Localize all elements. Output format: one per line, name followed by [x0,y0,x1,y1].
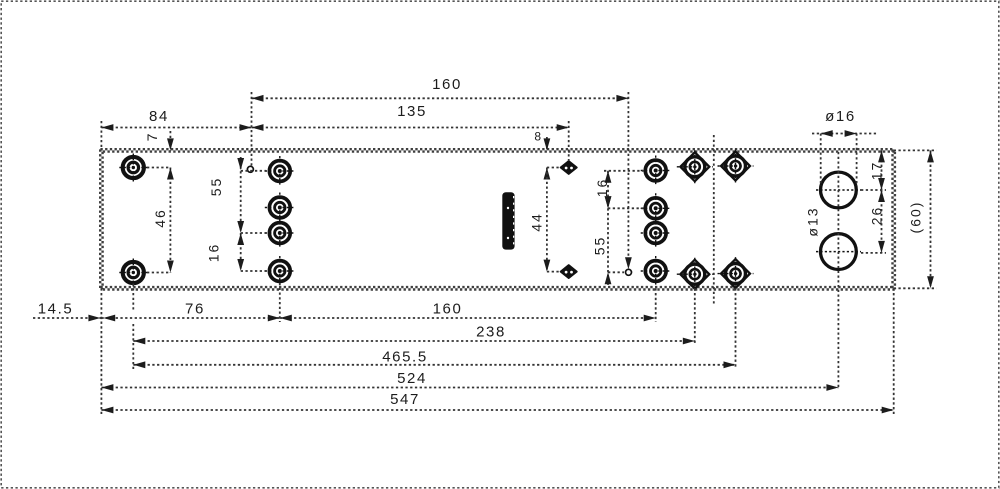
svg-text:465.5: 465.5 [382,349,428,366]
svg-text:(60): (60) [908,201,924,234]
dim 238 line [133,338,695,345]
dim 55 right line [605,196,612,285]
panel left edge [100,149,102,289]
svg-text:160: 160 [432,76,462,93]
stub circle2 center [861,252,886,254]
dim 44 line [544,168,551,272]
dim 7 label [144,132,160,142]
stub circle1 center [861,189,886,191]
ext col4 bottom [694,288,696,345]
dim 46 line [167,168,174,273]
stub col2 row4 [241,270,266,272]
connector hole col2 row3 [265,218,295,248]
dim 60 label [908,201,924,234]
svg-text:76: 76 [185,301,205,318]
big circle top crosshair [816,189,861,191]
dim 84 line [101,124,251,131]
dim 44 label [529,212,545,232]
big circle top [821,172,857,208]
ext hole1 center bottom [132,284,134,370]
ext line small hole col2 [251,92,253,166]
dim o16 label [825,108,856,125]
ext col2 bottom [279,283,281,322]
stub hole row y272 [147,272,170,274]
svg-text:547: 547 [390,391,420,408]
dim 76 line [101,315,279,322]
stub col3 row1 [604,170,644,172]
stub 60 bottom [894,287,937,289]
big circle bottom [821,234,857,270]
knurled screw hole top-left [119,154,147,182]
connector hole col3 row3 [641,218,671,248]
panel top edge [100,149,894,151]
small hole near col3 bottom [626,269,632,275]
dim 14.5 line [33,315,101,322]
svg-text:26: 26 [869,206,885,226]
svg-text:7: 7 [144,132,160,142]
svg-text:17: 17 [869,161,885,181]
diamond hole col4 top [677,150,713,183]
connector hole col2 row4 [265,256,295,286]
stub 60 top [894,149,937,151]
dim 60 line [927,150,934,288]
stub star bottom [547,271,559,273]
stub col3 row2 [608,207,644,209]
connector hole col3 row1 [641,156,671,186]
svg-text:14.5: 14.5 [38,301,74,318]
svg-text:84: 84 [149,108,169,125]
dim 160 bottom line [280,315,656,322]
connector hole col2 row1 [265,156,295,186]
ext col5 bottom [735,288,737,369]
diamond hole col5 bottom [718,257,754,290]
ext left edge bottom [100,288,102,414]
dim 7 arrow [167,131,174,150]
svg-text:ø16: ø16 [825,108,856,125]
ext line left edge top [100,121,102,150]
dim 16 left arrows [237,259,244,271]
svg-text:238: 238 [476,324,506,341]
ext line star top [568,121,570,161]
svg-text:55: 55 [592,236,608,256]
dim 76 label [185,301,205,318]
stub col3 small circle [608,271,624,273]
dim 524 line [101,384,838,391]
dim 84 label [149,108,169,125]
svg-text:8: 8 [534,130,542,144]
svg-text:16: 16 [594,178,610,198]
break line [713,135,715,304]
dim 547 label [390,391,420,408]
panel right edge [893,149,895,289]
diamond hole col4 bottom [677,258,713,291]
stub hole row y167 [147,167,170,169]
diamond hole col5 top [718,150,754,183]
dim 160 top label [432,76,462,93]
connector hole col2 row2 [265,193,295,223]
dim 135 label [397,103,427,120]
stub star top [547,167,559,169]
svg-text:ø13: ø13 [805,206,821,236]
dim 238 label [476,324,506,341]
ext right edge bottom [893,288,895,414]
slot cutout [502,192,514,249]
ext line small hole col3 [625,92,632,269]
dim 465.5 label [382,349,428,366]
dim o16 line [812,130,877,137]
ext line o16 right [856,134,858,187]
svg-text:160: 160 [433,301,463,318]
svg-text:55: 55 [208,177,224,197]
svg-text:44: 44 [529,212,545,232]
dim 16 right line [605,171,612,209]
dim 55 left label [208,177,224,197]
dim 17 label [869,161,885,181]
dim 547 line [101,407,893,414]
svg-text:46: 46 [152,208,168,228]
dim 16 right label [594,178,610,198]
dim 160 bottom label [433,301,463,318]
ext line o16 left [820,134,822,187]
big circles center line [837,152,839,388]
dim 8 label [534,130,542,144]
dim 26 line [878,190,885,253]
dim 14.5 label [38,301,74,318]
connector hole col3 row4 [641,256,671,286]
dim 135 line [252,124,569,131]
small hole near col2 top [247,166,253,172]
dim 26 label [869,206,885,226]
panel bottom edge [100,287,894,289]
stub col2 row3 [241,232,266,234]
label o13 [805,206,821,236]
stub col2 row1 [241,170,266,172]
dim 46 label [152,208,168,228]
dim 55 right label [592,236,608,256]
svg-text:524: 524 [397,370,427,387]
dim 8 arrows [544,137,551,180]
small square hole top-middle [561,161,577,174]
big circle bottom crosshair [816,251,861,253]
dim 465.5 line [133,361,735,368]
dim 17 line [878,150,885,190]
dim 160 top line [252,95,629,102]
dim 16 left label [206,243,222,263]
connector hole col3 row2 [641,193,671,223]
dim 524 label [397,370,427,387]
dim 55 left line [237,157,244,271]
svg-text:16: 16 [206,243,222,263]
ext col3 bottom [655,288,657,322]
small square hole bottom-middle [561,265,577,278]
knurled screw hole bottom-left [119,259,147,287]
svg-text:135: 135 [397,103,427,120]
